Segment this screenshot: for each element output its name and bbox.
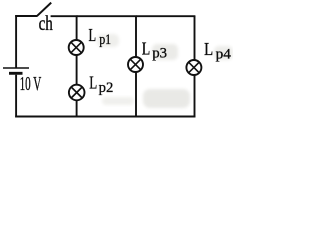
- wire right edge upper: [194, 16, 196, 61]
- svg-text:p1: p1: [99, 32, 111, 48]
- battery positive plate (long): [3, 67, 29, 69]
- svg-text:L: L: [89, 73, 97, 93]
- wire bottom edge: [15, 116, 195, 118]
- wire top segment node B to top-right corner: [136, 15, 195, 17]
- lamp Lp3: [128, 57, 143, 72]
- label Lp3: [142, 38, 167, 61]
- lamp Lp4: [186, 60, 201, 75]
- label Lp1: [89, 25, 112, 48]
- wire top-left segment: [15, 15, 37, 17]
- scan artifact patch behind Lp4 label: [214, 46, 233, 60]
- battery negative plate (short thick): [9, 72, 23, 75]
- svg-text:p2: p2: [99, 80, 114, 96]
- lamp Lp2: [69, 85, 85, 101]
- scan artifact streak below Lp2 label: [102, 97, 134, 105]
- scan artifact patch behind Lp3 label: [152, 44, 178, 60]
- lamp Lp1: [69, 40, 84, 55]
- svg-text:p4: p4: [216, 46, 232, 62]
- svg-text:ch: ch: [39, 11, 54, 35]
- wire right edge lower: [194, 75, 196, 118]
- node A junction branch Lp1: [76, 16, 78, 41]
- svg-text:L: L: [142, 38, 151, 58]
- wire top segment from switch to node A: [51, 15, 78, 17]
- svg-text:L: L: [204, 39, 213, 59]
- label Lp2: [89, 73, 113, 96]
- wire between Lp1 and Lp2: [76, 55, 78, 86]
- switch ch blade: [37, 3, 51, 17]
- wire top segment node A to node B: [77, 15, 137, 17]
- svg-text:10 V: 10 V: [20, 73, 42, 95]
- wire below Lp3 to bottom: [135, 72, 137, 117]
- scan artifact patch bottom middle cell: [143, 89, 190, 108]
- label ch: [39, 11, 54, 35]
- node B junction branch Lp3: [135, 16, 137, 58]
- wire left edge upper: [15, 15, 17, 68]
- wire below Lp2 to bottom: [76, 100, 78, 117]
- scan artifact patch behind Lp1 label: [97, 34, 119, 47]
- label Lp4: [204, 39, 231, 62]
- svg-text:p3: p3: [152, 46, 167, 62]
- wire left edge lower: [15, 75, 17, 118]
- svg-text:L: L: [89, 25, 97, 45]
- label 10 V: [20, 73, 42, 95]
